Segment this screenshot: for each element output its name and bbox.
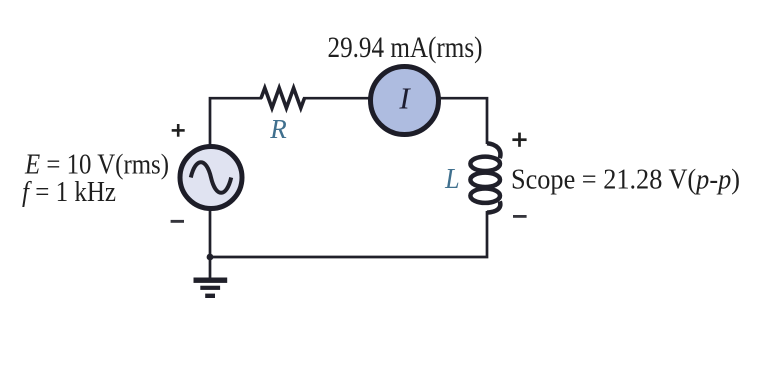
ammeter I circle [371, 67, 439, 135]
svg-text:I: I [398, 80, 411, 115]
svg-text:R: R [269, 114, 287, 144]
sine wave inside source [191, 162, 231, 193]
resistor R zigzag [261, 88, 304, 108]
wire: left vertical from source top to top-left corner, then to resistor [210, 98, 262, 146]
minus sign (inductor) [513, 215, 527, 218]
AC voltage source E [180, 147, 242, 209]
wire: source bottom to junction [209, 209, 212, 257]
minus sign (source) [171, 220, 184, 223]
plus sign (source) [172, 124, 185, 137]
svg-text:29.94 mA(rms): 29.94 mA(rms) [328, 31, 483, 64]
plus sign (inductor) [512, 133, 526, 147]
wire: ammeter to top-right corner down to inductor [437, 98, 487, 144]
junction dot (node) [207, 254, 214, 261]
inductor L coil [470, 143, 500, 212]
wire: resistor to ammeter [303, 97, 372, 100]
svg-text:Scope = 21.28 V(p-p): Scope = 21.28 V(p-p) [511, 163, 740, 195]
wire: inductor bottom to bottom-right corner to junction [210, 211, 487, 257]
ground [194, 257, 228, 298]
svg-text:L: L [444, 164, 459, 195]
svg-text:f = 1 kHz: f = 1 kHz [22, 176, 116, 208]
